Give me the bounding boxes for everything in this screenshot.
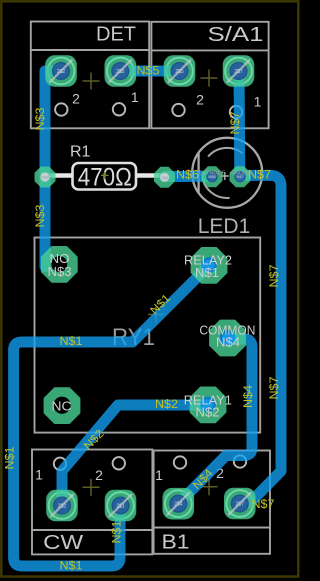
svg-text:N$4: N$4 <box>216 336 240 350</box>
DET pad2 ring <box>107 58 134 85</box>
pad B1 1 (green thru pad) <box>163 488 195 520</box>
svg-text:DET: DET <box>96 24 136 46</box>
svg-text:N$1: N$1 <box>195 266 219 280</box>
resistor R1 right pad (octagon) <box>154 167 175 188</box>
LED1 cathode pad (octagon) <box>202 166 223 187</box>
relay pad RELAY1 (octagon with hole) <box>190 387 227 424</box>
DET origin cross <box>83 73 100 90</box>
wire N$7 from S/A1 pad1 down to LED pad2 <box>234 71 246 176</box>
DET pad2 silk diagonal <box>109 60 132 83</box>
B1 pad2 ring <box>226 490 253 517</box>
via fill at RELAY2 pad hole <box>200 257 218 275</box>
svg-text:CATHODE: CATHODE <box>199 171 227 177</box>
resistor R1 right lead <box>136 173 165 177</box>
svg-text:S/A1: S/A1 <box>208 24 264 46</box>
relay pad RELAY2 (octagon with hole) <box>191 247 228 284</box>
relay pad NO (octagon with hole) <box>41 246 78 283</box>
svg-text:1: 1 <box>155 467 163 483</box>
svg-text:N$7: N$7 <box>252 499 275 511</box>
resistor R1 left pad (octagon) <box>35 167 56 188</box>
wire N$2 from relay RELAY1 pad to CW pad1 <box>62 405 208 506</box>
LED1 inner top arc <box>208 148 243 157</box>
S/A1 pin 2 circle marker <box>172 104 184 116</box>
svg-text:N$1: N$1 <box>60 336 83 348</box>
svg-text:N$7: N$7 <box>269 377 281 400</box>
B1 pad1 via <box>170 495 187 512</box>
pad DET 2 (green thru pad) <box>105 55 137 87</box>
svg-text:1: 1 <box>254 94 262 110</box>
LED1 cathode flat chord <box>197 152 199 194</box>
svg-text:2: 2 <box>72 91 80 107</box>
DET pad1 ring <box>48 58 75 85</box>
relay pad COMMON text <box>199 324 255 350</box>
S/A1 pin 1 circle marker <box>230 106 242 118</box>
LED1 origin cross <box>221 172 229 180</box>
wire N$1 from relay RELAY2 pad around left and bottom to CW pad2 <box>14 266 209 567</box>
DET pad2 via <box>112 63 129 80</box>
svg-text:N$3: N$3 <box>35 205 47 228</box>
svg-text:LED1: LED1 <box>198 215 251 238</box>
svg-text:N$1: N$1 <box>60 561 83 573</box>
B1 pin 2 circle marker <box>234 455 246 467</box>
S/A1 pad2 via <box>171 63 188 80</box>
svg-text:N$7: N$7 <box>248 170 271 182</box>
svg-text:N$2: N$2 <box>155 399 178 411</box>
svg-text:N$5: N$5 <box>137 66 160 78</box>
CW pad1 via <box>54 497 71 514</box>
CW pad2 silk diagonal <box>109 494 132 517</box>
wire N$5 from DET pad2 to S/A1 pad2 <box>120 66 179 77</box>
LED1 inner bottom arc <box>202 175 230 198</box>
svg-text:N$6: N$6 <box>161 175 169 180</box>
relay pad COMMON (octagon with hole) <box>209 320 246 357</box>
svg-text:2: 2 <box>95 467 103 483</box>
relay pad RELAY1 text <box>184 393 232 419</box>
S/A1 origin cross <box>201 70 218 87</box>
wire N$4 from relay COMMON pad to B1 pad1 <box>178 339 252 504</box>
svg-text:R1: R1 <box>70 144 91 161</box>
B1 pad1 silk diagonal <box>167 492 190 515</box>
svg-text:N$6: N$6 <box>176 170 199 182</box>
LED1 anode pad (octagon) <box>230 166 251 187</box>
resistor R1 body outline <box>73 163 137 190</box>
CW pad1 ring <box>49 492 76 519</box>
resistor R1 origin cross <box>101 172 109 180</box>
wire N$3 from DET pad1 down to relay NO pad <box>45 71 61 267</box>
resistor R1 left lead <box>45 173 73 177</box>
pad S/A1 2 (green thru pad) <box>164 55 196 87</box>
S/A1 pad1 ring <box>225 58 252 85</box>
S/A1 pad1 silk diagonal <box>227 60 250 83</box>
svg-text:N$4: N$4 <box>243 384 255 408</box>
CW pad2 via <box>112 497 129 514</box>
svg-text:N$3: N$3 <box>35 108 47 131</box>
R1 left pad hole marker <box>40 172 49 181</box>
svg-text:2: 2 <box>196 92 204 108</box>
DET pad1 silk diagonal <box>50 60 73 83</box>
relay pad NO text <box>48 251 72 279</box>
svg-text:N$7: N$7 <box>230 112 242 135</box>
relay RY1 origin cross <box>148 307 164 323</box>
svg-text:B1: B1 <box>162 531 190 554</box>
connector CW frame <box>32 450 152 555</box>
via fill at RELAY1 pad hole <box>199 396 217 414</box>
pad DET 1 (green thru pad) <box>45 55 77 87</box>
connector DET frame <box>31 22 149 129</box>
R1 right pad hole marker <box>160 173 169 182</box>
CW pad2 ring <box>107 492 134 519</box>
S/A1 pad1 via <box>230 63 247 80</box>
via fill at COMMON pad hole <box>219 329 237 347</box>
connector S/A1 frame <box>151 22 268 129</box>
relay pad RELAY2 text <box>184 253 232 280</box>
B1 origin cross <box>201 478 218 495</box>
B1 pin 1 circle marker <box>174 456 186 468</box>
pad CW 1 (green thru pad) <box>46 490 78 522</box>
CW origin cross <box>83 479 100 496</box>
S/A1 pad2 silk diagonal <box>168 60 191 83</box>
B1 pad1 ring <box>165 490 192 517</box>
CW pin 2 circle marker <box>113 457 125 469</box>
LED1 anode pad via <box>235 171 245 181</box>
LED U LED1 package circle <box>192 138 262 208</box>
svg-text:NC: NC <box>52 399 72 414</box>
svg-text:RELAY2: RELAY2 <box>184 253 232 267</box>
DET pad1 via <box>53 63 70 80</box>
wire N$7 from LED pad2 right and down to B1 pad2 <box>240 175 281 503</box>
svg-text:N$1: N$1 <box>5 447 17 470</box>
S/A1 pad2 ring <box>166 58 193 85</box>
CW pad1 silk diagonal <box>51 494 74 517</box>
svg-text:1: 1 <box>35 467 43 483</box>
pad S/A1 1 (green thru pad) <box>223 55 255 87</box>
B1 pad2 silk diagonal <box>228 492 251 515</box>
svg-text:1: 1 <box>131 89 139 105</box>
DET pin 2 circle marker <box>55 103 67 115</box>
svg-text:N$1: N$1 <box>112 521 124 544</box>
pad B1 2 (green thru pad) <box>224 488 256 520</box>
pad CW 2 (green thru pad) <box>105 490 137 522</box>
DET pin 1 circle marker <box>113 103 125 115</box>
connector B1 frame <box>154 451 270 554</box>
LED1 cathode pad via <box>207 171 217 181</box>
relay RY1 frame <box>35 238 261 433</box>
svg-text:CW: CW <box>43 531 84 554</box>
svg-text:N$7: N$7 <box>269 265 281 288</box>
CW pin 1 circle marker <box>54 458 66 470</box>
svg-text:N$3: N$3 <box>48 264 72 279</box>
wire N$6 from R1 right pad to LED pad1 <box>165 171 213 182</box>
svg-text:N$3: N$3 <box>41 175 49 180</box>
relay pad NC (octagon with hole) <box>44 387 81 424</box>
B1 pad2 via <box>231 495 248 512</box>
svg-text:N$2: N$2 <box>196 406 220 420</box>
